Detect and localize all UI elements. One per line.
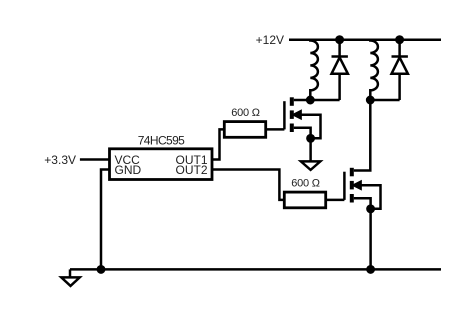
- wire OUT2 to R2: [212, 170, 284, 200]
- svg-text:600 Ω: 600 Ω: [291, 178, 319, 190]
- svg-text:600 Ω: 600 Ω: [231, 107, 259, 119]
- svg-text:+12V: +12V: [256, 33, 284, 47]
- wire node B down to Q2 drain: [354, 100, 371, 171]
- n-channel MOSFET Q2: [344, 168, 380, 209]
- junction dot: D1 cathode to +12V rail: [336, 37, 342, 43]
- wire Q1 source to ground: [309, 138, 312, 161]
- wire GND pin to ground rail: [101, 170, 110, 270]
- IC U1 74HC595: [110, 149, 213, 180]
- svg-text:OUT2: OUT2: [175, 163, 207, 177]
- wire node A (L1 bottom / D1 anode / Q1 drain): [294, 99, 340, 102]
- svg-text:GND: GND: [115, 163, 142, 177]
- wire +3.3V to VCC pin: [80, 158, 110, 161]
- wire Q2 source to ground rail: [369, 209, 372, 270]
- ground (Q1 source): [301, 161, 320, 170]
- wire R2 to Q2 gate: [326, 199, 345, 202]
- svg-text:+3.3V: +3.3V: [44, 153, 76, 167]
- wire node B (L2 bottom / D2 anode): [370, 99, 399, 102]
- junction dot: GND wire to ground rail: [98, 266, 104, 272]
- ground (rail): [61, 277, 79, 286]
- resistor R1: [224, 122, 265, 138]
- n-channel MOSFET Q1: [284, 97, 320, 138]
- wire ground rail: [70, 268, 441, 271]
- wire ground rail stub to ground symbol: [69, 269, 72, 277]
- junction dot node B: [367, 97, 373, 103]
- junction dot node A: [307, 97, 313, 103]
- junction dot: Q2 source to ground rail: [367, 266, 373, 272]
- junction dot: Q2 source/body tie: [367, 206, 373, 212]
- wire +12V rail: [289, 38, 441, 41]
- inductor L1: [310, 40, 318, 100]
- wire R1 to Q1 gate: [266, 128, 285, 131]
- svg-text:74HC595: 74HC595: [138, 133, 185, 147]
- inductor L2: [370, 40, 378, 100]
- wire OUT1 to R1: [212, 129, 224, 159]
- junction dot: Q1 source/body tie: [307, 135, 313, 141]
- junction dot: D2 cathode to +12V rail: [396, 37, 402, 43]
- diode D2: [392, 40, 408, 100]
- diode D1: [332, 40, 348, 100]
- resistor R2: [284, 192, 325, 208]
